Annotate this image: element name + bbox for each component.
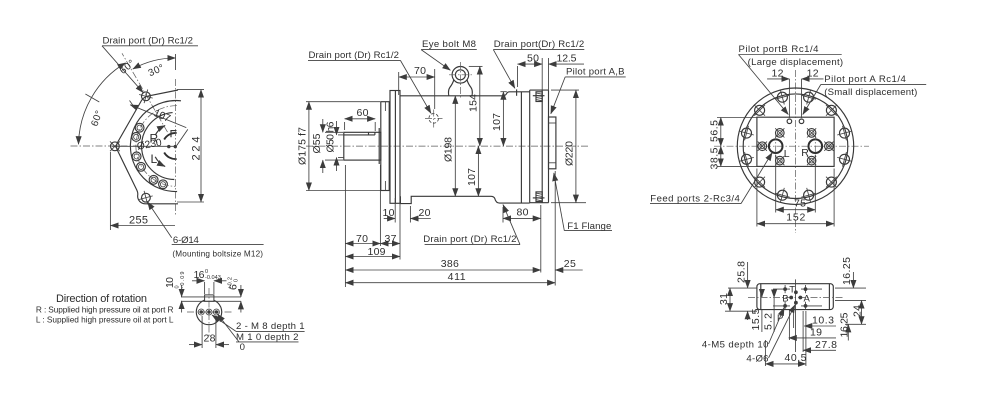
svg-text:10: 10 xyxy=(383,207,395,219)
svg-text:386: 386 xyxy=(441,258,459,270)
svg-text:Ø220: Ø220 xyxy=(563,141,575,166)
svg-text:Direction of rotation: Direction of rotation xyxy=(56,293,147,305)
svg-text:4-M5 depth 10: 4-M5 depth 10 xyxy=(702,340,769,351)
svg-text:255: 255 xyxy=(129,215,148,227)
svg-text:A: A xyxy=(804,293,811,304)
svg-text:28: 28 xyxy=(204,333,216,345)
svg-text:50: 50 xyxy=(527,52,539,64)
svg-text:107: 107 xyxy=(491,113,503,131)
svg-text:Pilot port A,B: Pilot port A,B xyxy=(566,67,625,78)
svg-text:Ø198: Ø198 xyxy=(443,137,455,162)
svg-text:27.8: 27.8 xyxy=(815,339,837,351)
svg-text:224: 224 xyxy=(190,137,202,161)
svg-text:12: 12 xyxy=(807,68,819,80)
svg-text:L : Supplied high pressure oil: L : Supplied high pressure oil at port L xyxy=(36,315,174,325)
svg-text:152: 152 xyxy=(786,212,805,224)
svg-text:B: B xyxy=(782,293,788,304)
svg-text:Drain port(Dr) Rc1/2: Drain port(Dr) Rc1/2 xyxy=(494,39,585,50)
svg-text:R : Supplied high pressure oi: R : Supplied high pressure oil at port R xyxy=(36,304,174,314)
svg-text:60: 60 xyxy=(357,107,369,119)
svg-text:Drain port (Dr) Rc1/2: Drain port (Dr) Rc1/2 xyxy=(423,234,516,245)
svg-text:(Mounting boltsize M12): (Mounting boltsize M12) xyxy=(172,250,263,259)
svg-text:0: 0 xyxy=(234,279,240,282)
svg-text:154: 154 xyxy=(468,94,480,112)
svg-text:37: 37 xyxy=(385,233,397,245)
svg-text:80: 80 xyxy=(517,207,529,219)
svg-text:Eye bolt M8: Eye bolt M8 xyxy=(422,39,476,50)
svg-text:Pilot port A Rc1/4: Pilot port A Rc1/4 xyxy=(824,74,906,85)
svg-text:109: 109 xyxy=(368,246,386,258)
svg-text:107: 107 xyxy=(466,168,478,186)
svg-text:Ø50 h6: Ø50 h6 xyxy=(325,121,337,152)
svg-text:4-Ø6: 4-Ø6 xyxy=(746,353,768,364)
svg-text:L: L xyxy=(151,152,158,166)
svg-text:T: T xyxy=(789,285,795,296)
svg-text:70: 70 xyxy=(356,233,368,245)
svg-text:+0.2: +0.2 xyxy=(228,277,234,289)
svg-text:Drain port (Dr) Rc1/2: Drain port (Dr) Rc1/2 xyxy=(309,50,400,61)
svg-text:19: 19 xyxy=(810,327,822,339)
svg-text:56.5: 56.5 xyxy=(709,120,721,142)
svg-text:10.3: 10.3 xyxy=(812,315,834,327)
svg-text:2 - M 8 depth 1: 2 - M 8 depth 1 xyxy=(236,321,305,332)
svg-text:16.25: 16.25 xyxy=(841,257,853,285)
svg-text:25.8: 25.8 xyxy=(735,261,747,283)
svg-text:(Small displacement): (Small displacement) xyxy=(824,87,917,98)
svg-text:Ø55: Ø55 xyxy=(311,133,323,153)
svg-text:15.5: 15.5 xyxy=(750,308,762,330)
svg-text:31: 31 xyxy=(718,293,730,305)
svg-text:(Large displacement): (Large displacement) xyxy=(748,57,844,68)
svg-text:16.25: 16.25 xyxy=(838,312,850,337)
svg-text:Drain port (Dr) Rc1/2: Drain port (Dr) Rc1/2 xyxy=(103,36,194,47)
svg-text:Ø175 f7: Ø175 f7 xyxy=(297,127,309,165)
svg-text:411: 411 xyxy=(448,271,466,283)
svg-text:70: 70 xyxy=(414,65,426,77)
svg-text:Pilot portB Rc1/4: Pilot portB Rc1/4 xyxy=(739,44,820,55)
svg-text:L: L xyxy=(784,148,790,160)
svg-text:20: 20 xyxy=(419,207,431,219)
svg-text:24: 24 xyxy=(852,305,864,317)
svg-text:-0.09: -0.09 xyxy=(180,272,186,289)
svg-text:12.5: 12.5 xyxy=(557,52,577,64)
svg-text:M 1 0 depth 2: M 1 0 depth 2 xyxy=(236,332,299,343)
svg-text:38.5: 38.5 xyxy=(709,147,721,169)
svg-text:5.2: 5.2 xyxy=(763,313,775,330)
svg-text:-0.043: -0.043 xyxy=(205,275,221,281)
svg-text:25: 25 xyxy=(564,258,576,270)
svg-text:16: 16 xyxy=(194,269,205,281)
svg-text:12: 12 xyxy=(772,68,784,80)
svg-text:75: 75 xyxy=(794,198,806,210)
svg-text:40.5: 40.5 xyxy=(785,352,807,364)
svg-text:Feed ports 2-Rc3/4: Feed ports 2-Rc3/4 xyxy=(650,193,740,204)
svg-text:0: 0 xyxy=(240,342,245,353)
